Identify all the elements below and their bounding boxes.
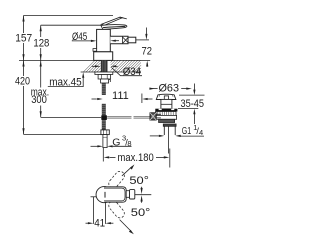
mounting nut: [98, 75, 110, 80]
waste tail pipe nut: [163, 124, 176, 126]
dimension G1 1/4 label: [182, 123, 203, 137]
waste centerline extension: [169, 149, 171, 168]
dimension max.45 arrow up: [82, 72, 84, 78]
countertop bottom line: [81, 71, 141, 73]
dimension 35-45 top arrow: [193, 84, 195, 91]
supply hose braided middle: [102, 104, 106, 115]
pop-up rod knob: [93, 49, 97, 52]
top view lever inner outline: [104, 188, 125, 201]
popup waste neck: [161, 99, 172, 109]
top view dashed lever up position: [107, 169, 126, 189]
dimension 157 line: [23, 16, 25, 61]
svg-text:50°: 50°: [131, 207, 151, 219]
dimension O45 underline with right arrow: [72, 40, 92, 42]
supply tube: [103, 135, 107, 148]
popup waste lower body: [156, 115, 177, 119]
dimension max.45 underline and leader: [48, 76, 83, 86]
supply tube centerline extension: [102, 148, 104, 162]
dimension max.180 left arrow: [110, 156, 116, 158]
faucet shank through countertop: [101, 60, 108, 72]
svg-text:41: 41: [94, 217, 105, 229]
dimension max.300 line: [40, 61, 42, 118]
svg-text:4: 4: [199, 128, 203, 137]
dimension 157 extension line top: [24, 15, 114, 17]
pop-up rod tee joint: [101, 115, 107, 120]
faucet body: [97, 29, 111, 51]
pop-up rod horizontal: [107, 117, 150, 118]
faucet spout joint: [123, 36, 129, 44]
popup waste plug: [164, 96, 168, 100]
popup waste ball joint nut: [150, 113, 156, 120]
dimension 35-45 top extension: [179, 94, 205, 96]
dimension O34 underline and leader: [112, 68, 143, 76]
top view body circle: [96, 187, 112, 203]
countertop hatching left: [83, 60, 100, 72]
dimension max.300 arrow down: [40, 111, 42, 117]
top view rod knob stub: [91, 196, 97, 198]
top view swivel arrow lower head at centerline: [141, 195, 143, 201]
waste tail pipe: [164, 126, 175, 135]
countertop hatching right: [111, 60, 141, 72]
popup waste seal band: [155, 109, 177, 112]
dimension max.300 arrow up: [40, 61, 42, 67]
rod clamp block: [101, 79, 109, 83]
svg-text:35-45: 35-45: [181, 98, 205, 110]
popup waste clamp ring: [156, 112, 176, 116]
faucet spout: [110, 36, 128, 44]
top view dashed lever down position: [107, 199, 126, 219]
mounting washer: [95, 72, 113, 75]
svg-text:420: 420: [15, 75, 30, 87]
faucet spout end cap: [128, 37, 136, 43]
dimension 128 arrow down: [40, 54, 42, 60]
supply hose braided upper: [102, 83, 106, 104]
G 3/8 nut: [101, 130, 109, 135]
dimension 72 arrow up: [145, 60, 147, 66]
dimension 157 arrow down: [22, 54, 24, 60]
dimension G1 1/4 line with arrows: [150, 135, 159, 137]
dimension max.180 right arrow: [156, 156, 164, 158]
top view cartridge axis mark: [104, 192, 106, 198]
dimension O45 left-pointing arrow: [116, 40, 120, 42]
dimension 128 arrow up: [40, 25, 42, 31]
dimension 72 extension line top: [136, 39, 149, 41]
svg-text:72: 72: [142, 45, 153, 57]
dimension 72 arrow down: [145, 28, 147, 35]
svg-text:max.180: max.180: [118, 152, 154, 164]
dimension 35-45 bottom extension: [178, 108, 198, 110]
dimension G3/8 underline with left arrow: [113, 145, 132, 147]
top view lever pill: [104, 187, 126, 202]
svg-text:Ø63: Ø63: [159, 82, 180, 94]
dimension 111 right extension line: [141, 94, 143, 104]
dimension O34 arrows: [92, 65, 96, 67]
svg-text:50°: 50°: [129, 175, 149, 187]
supply hose braided lower: [102, 120, 106, 130]
dimension 111 right arrow: [148, 98, 153, 100]
svg-text:128: 128: [33, 37, 49, 49]
waste tail pipe rod: [168, 127, 170, 154]
top view swivel arrow upper head at centerline: [141, 188, 143, 194]
dimension 420 line: [23, 61, 25, 135]
dimension G3/8 left arrow: [91, 145, 99, 147]
countertop surface line: [19, 59, 150, 61]
popup waste ball joint stem: [156, 114, 161, 118]
top view swivel arrow upper diagonal: [122, 167, 132, 176]
svg-text:111: 111: [112, 90, 129, 102]
dimension 111 left arrow: [92, 98, 97, 100]
svg-text:Ø45: Ø45: [72, 31, 87, 43]
svg-text:G1: G1: [182, 125, 192, 137]
dimension 157 arrow up: [22, 16, 24, 22]
dimension 41 left arrow: [86, 222, 89, 224]
dimension 41 extension lines: [93, 197, 105, 224]
svg-text:157: 157: [15, 32, 32, 44]
dimension max.300 extension line: [41, 116, 101, 118]
faucet lever grip: [101, 25, 127, 30]
top view lever neck: [126, 191, 129, 198]
dimension 420 arrow down: [22, 128, 24, 134]
popup waste bottom cap: [159, 119, 175, 122]
top view centerline: [135, 194, 152, 196]
dimension 41 right arrow: [111, 222, 114, 224]
top view lever end block: [130, 190, 135, 199]
faucet base: [94, 52, 113, 61]
dimension G3/8 label: [112, 134, 131, 149]
faucet lever blade: [101, 17, 122, 25]
dimension 420 arrow up: [22, 61, 24, 67]
dimension 128 extension line: [41, 24, 103, 26]
dimension 35-45 bottom arrow: [193, 114, 195, 124]
popup waste flange: [156, 94, 176, 99]
dimension 128 line: [40, 25, 42, 60]
dimension 420 extension line bottom: [24, 134, 101, 136]
svg-text:300: 300: [31, 94, 47, 106]
top view swivel arrow lower diagonal: [120, 220, 132, 232]
